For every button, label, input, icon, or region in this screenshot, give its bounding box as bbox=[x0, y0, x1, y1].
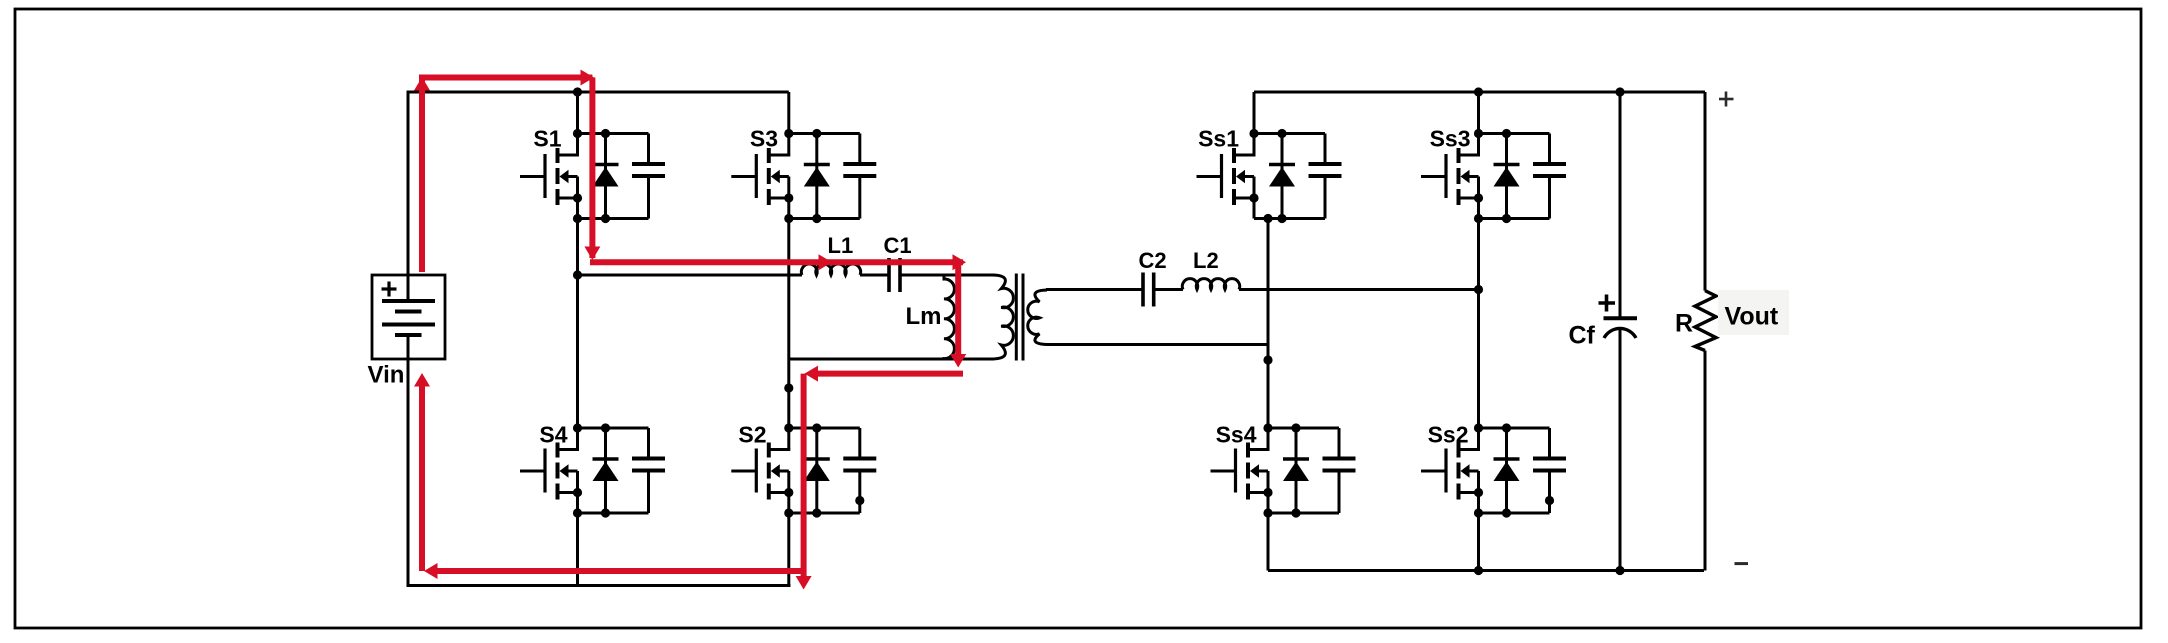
wire: left bridge leg (S1/S4) vertical bbox=[576, 92, 579, 587]
body diode of Ss3 bbox=[1494, 134, 1520, 219]
junction dots of S3 bbox=[784, 129, 821, 223]
label Cf bbox=[1569, 322, 1596, 350]
wire: secondary right leg (Ss3/Ss2) vertical bbox=[1477, 92, 1480, 571]
transformer primary winding bbox=[993, 275, 1013, 359]
parallel (snubber) capacitor of S1 bbox=[632, 134, 665, 219]
junction: L2 wire / Ss3-Ss2 midpoint bbox=[1474, 285, 1483, 294]
cell top wire of S3 bbox=[789, 132, 860, 135]
svg-text:C2: C2 bbox=[1139, 248, 1167, 273]
body diode of S3 bbox=[804, 134, 830, 219]
output minus terminal bbox=[1735, 562, 1749, 565]
label S3 bbox=[750, 126, 778, 152]
magnetizing inductance Lm bbox=[944, 275, 954, 359]
svg-text:Ss3: Ss3 bbox=[1430, 126, 1471, 152]
cell top wire of S1 bbox=[578, 132, 649, 135]
svg-text:Vin: Vin bbox=[368, 362, 405, 389]
label Lm bbox=[906, 303, 942, 330]
transformer core bbox=[1016, 274, 1023, 361]
body diode of S4 bbox=[593, 428, 619, 513]
load resistor R bbox=[1695, 92, 1716, 571]
cell bottom wire of S2 bbox=[789, 512, 860, 515]
label Vout (with light box) bbox=[1718, 290, 1789, 335]
wire: right bridge leg (S3/S2) vertical bbox=[787, 92, 790, 587]
junction dots of Ss1 bbox=[1249, 129, 1286, 223]
wire: primary top rail bbox=[407, 91, 789, 94]
wire: transformer primary bottom to bridge bbox=[789, 358, 994, 361]
body diode of S1 bbox=[593, 134, 619, 219]
parallel (snubber) capacitor of Ss3 bbox=[1533, 134, 1566, 219]
red current path: down through Lm bbox=[950, 262, 966, 367]
junction: top rail / Cf branch bbox=[1615, 87, 1624, 96]
svg-text:Vout: Vout bbox=[1725, 303, 1779, 331]
svg-text:S4: S4 bbox=[539, 422, 567, 448]
cell bottom wire of Ss2 bbox=[1479, 512, 1550, 515]
cell bottom wire of S3 bbox=[789, 217, 860, 220]
wire: transformer secondary top to C2 bbox=[1046, 288, 1143, 291]
inductor L1 bbox=[801, 264, 860, 275]
transistor Ss3 (MOSFET with gate, channel, source arrow) bbox=[1421, 134, 1480, 219]
wire: battery negative to bottom rail bbox=[407, 358, 410, 587]
junction dots of S1 bbox=[573, 129, 610, 223]
red current path: down through S1 bbox=[584, 78, 600, 261]
cell bottom wire of Ss1 bbox=[1254, 217, 1325, 220]
label Ss2 bbox=[1428, 422, 1469, 448]
transistor S2 (MOSFET with gate, channel, source arrow) bbox=[731, 428, 790, 513]
node B: S3/S2 midpoint junction bbox=[784, 383, 793, 392]
red current path: down through S2 bbox=[796, 374, 812, 590]
svg-text:S3: S3 bbox=[750, 126, 778, 152]
cell bottom wire of Ss3 bbox=[1479, 217, 1550, 220]
output plus terminal bbox=[1719, 92, 1734, 107]
inductor L2 bbox=[1182, 279, 1239, 290]
parallel (snubber) capacitor of Ss1 bbox=[1309, 134, 1342, 219]
svg-text:Ss2: Ss2 bbox=[1428, 422, 1469, 448]
label Vin bbox=[368, 362, 405, 389]
junction dots of Ss2 bbox=[1474, 423, 1511, 517]
body diode of Ss1 bbox=[1269, 134, 1295, 219]
wire: transformer secondary bottom to left leg bbox=[1046, 343, 1268, 346]
cell top wire of Ss3 bbox=[1479, 132, 1550, 135]
junction: bottom rail / Ss2 leg bbox=[1474, 566, 1483, 575]
cell top wire of S2 bbox=[789, 427, 860, 430]
transistor Ss4 (MOSFET with gate, channel, source arrow) bbox=[1211, 428, 1270, 513]
label R bbox=[1675, 310, 1693, 338]
transistor Ss1 (MOSFET with gate, channel, source arrow) bbox=[1197, 134, 1256, 219]
svg-text:Ss4: Ss4 bbox=[1216, 422, 1257, 448]
wire: secondary left leg (Ss1/Ss4) vertical bbox=[1254, 92, 1268, 571]
label Ss4 bbox=[1216, 422, 1257, 448]
cell bottom wire of Ss4 bbox=[1268, 512, 1339, 515]
junction dots of Ss4 bbox=[1263, 423, 1300, 517]
svg-text:R: R bbox=[1675, 310, 1693, 338]
wire: bridge output to L1 bbox=[578, 274, 803, 277]
junction: bottom rail / Cf branch bbox=[1615, 566, 1624, 575]
junction dots of S4 bbox=[573, 423, 610, 517]
parallel (snubber) capacitor of S3 bbox=[843, 134, 876, 219]
cell top wire of Ss2 bbox=[1479, 427, 1550, 430]
voltage source Vin (battery in box) bbox=[372, 275, 445, 359]
junction dots of S2 bbox=[784, 423, 821, 517]
transistor S4 (MOSFET with gate, channel, source arrow) bbox=[520, 428, 579, 513]
wire: L2 to secondary bridge right leg bbox=[1239, 288, 1479, 291]
label C1 bbox=[884, 233, 912, 258]
transistor S1 (MOSFET with gate, channel, source arrow) bbox=[520, 134, 579, 219]
node A: S1/S4 midpoint junction bbox=[573, 270, 582, 279]
transformer secondary winding bbox=[1028, 290, 1047, 345]
red current path: bottom rail back to battery bbox=[424, 563, 804, 579]
svg-text:Ss1: Ss1 bbox=[1198, 126, 1239, 152]
wire: secondary top rail bbox=[1254, 91, 1705, 94]
label S1 bbox=[533, 126, 561, 152]
svg-text:S2: S2 bbox=[738, 422, 766, 448]
label S2 bbox=[738, 422, 766, 448]
capacitor C2 bbox=[1143, 273, 1154, 307]
red current path: battery positive up to top rail bbox=[414, 77, 430, 272]
red current path: along tank wire to Lm bbox=[590, 254, 966, 270]
label S4 bbox=[539, 422, 567, 448]
wire: secondary bottom rail bbox=[1268, 569, 1704, 572]
label L1 bbox=[828, 233, 854, 258]
parallel (snubber) capacitor of S2 bbox=[843, 428, 876, 513]
filter capacitor Cf (polarized) bbox=[1599, 92, 1638, 571]
svg-text:S1: S1 bbox=[533, 126, 561, 152]
label Ss3 bbox=[1430, 126, 1471, 152]
red current path: top horizontal to S1 leg bbox=[419, 70, 594, 86]
wire: C2 to L2 bbox=[1154, 288, 1183, 291]
label Ss1 bbox=[1198, 126, 1239, 152]
junction: top rail / Ss3 leg bbox=[1474, 87, 1483, 96]
cell top wire of Ss4 bbox=[1268, 427, 1339, 430]
parallel (snubber) capacitor of S4 bbox=[632, 428, 665, 513]
svg-text:Lm: Lm bbox=[906, 303, 942, 330]
transistor Ss2 (MOSFET with gate, channel, source arrow) bbox=[1421, 428, 1480, 513]
junction dots of Ss3 bbox=[1474, 129, 1511, 223]
wire: C1 to transformer primary top bbox=[900, 274, 994, 277]
label C2 bbox=[1139, 248, 1167, 273]
wire: battery positive to top rail bbox=[407, 92, 410, 276]
cell top wire of Ss1 bbox=[1254, 132, 1325, 135]
body diode of Ss2 bbox=[1494, 428, 1520, 513]
junction: top rail / S1 leg bbox=[573, 87, 582, 96]
capacitor C1 bbox=[889, 258, 900, 292]
wire: primary outer bottom rail bbox=[407, 584, 791, 587]
body diode of Ss4 bbox=[1283, 428, 1309, 513]
wire: L1 to C1 bbox=[860, 274, 889, 277]
parallel (snubber) capacitor of Ss4 bbox=[1323, 428, 1356, 513]
parallel (snubber) capacitor of Ss2 bbox=[1533, 428, 1566, 513]
red current path: up to battery negative bbox=[414, 373, 430, 571]
cell top wire of S4 bbox=[578, 427, 649, 430]
red current path: back left below transformer bbox=[805, 366, 964, 382]
label L2 bbox=[1193, 248, 1219, 273]
svg-text:L2: L2 bbox=[1193, 248, 1219, 273]
cell bottom wire of S1 bbox=[578, 217, 649, 220]
body diode of S2 bbox=[804, 428, 830, 513]
svg-text:L1: L1 bbox=[828, 233, 854, 258]
svg-text:Cf: Cf bbox=[1569, 322, 1596, 350]
cell bottom wire of S4 bbox=[578, 512, 649, 515]
transistor S3 (MOSFET with gate, channel, source arrow) bbox=[731, 134, 790, 219]
junction: Ss1/Ss4 midpoint node bbox=[1263, 355, 1272, 364]
svg-text:C1: C1 bbox=[884, 233, 912, 258]
